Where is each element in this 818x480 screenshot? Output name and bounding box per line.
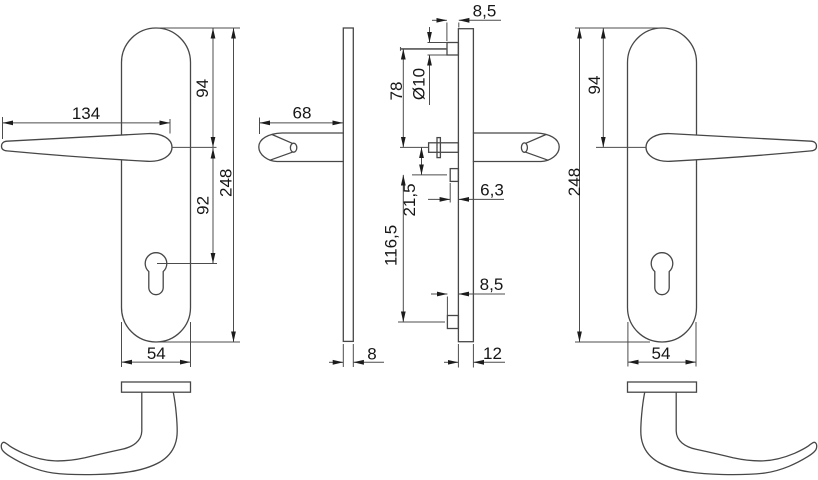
lever tip ellipse right — [521, 143, 527, 152]
dim 134 ext right — [169, 119, 171, 134]
lever tip cone line top — [272, 135, 292, 144]
extension line keyhole centre — [157, 263, 217, 265]
dim 248 line right — [579, 28, 581, 342]
screw shaft — [401, 48, 448, 50]
spindle collar — [437, 138, 440, 158]
lever grip top view right — [641, 392, 817, 474]
lever tip cone line bottom — [270, 152, 292, 160]
dim 54 ext lines left — [121, 322, 123, 367]
dim 8.5 bottom arrows — [431, 293, 447, 295]
lever handle right front — [646, 134, 817, 162]
lever handle side profile — [259, 133, 344, 162]
dim 54 line right — [628, 361, 696, 363]
extension line plate top — [156, 27, 240, 29]
dim 8.5 bottom ext — [446, 297, 448, 316]
spindle centre extension — [400, 146, 429, 148]
svg-text:6,3: 6,3 — [480, 180, 504, 199]
bottom screw boss — [447, 316, 458, 329]
svg-text:248: 248 — [217, 169, 236, 197]
dim 12 ext lines — [457, 344, 459, 368]
extension line handle centre — [172, 146, 217, 148]
backplate edge bar left — [122, 382, 191, 392]
cylinder boss ext line — [449, 183, 451, 203]
backplate section — [458, 29, 473, 342]
svg-text:8: 8 — [367, 344, 376, 363]
backplate right — [628, 28, 697, 342]
svg-text:8,5: 8,5 — [480, 275, 504, 294]
svg-text:94: 94 — [585, 76, 604, 95]
lever grip top view left — [1, 392, 177, 474]
svg-text:94: 94 — [193, 79, 212, 98]
lever handle left front — [2, 134, 173, 162]
cylinder boss — [450, 169, 458, 182]
dim 248 line left — [233, 28, 235, 342]
svg-text:8,5: 8,5 — [473, 1, 497, 20]
backplate side view — [343, 28, 353, 341]
dim 78 line — [402, 49, 404, 147]
dim 94 line left — [212, 28, 214, 147]
dim 54 ext lines right — [627, 322, 629, 367]
dim 68 line — [260, 122, 344, 124]
svg-text:134: 134 — [72, 104, 100, 123]
svg-text:12: 12 — [483, 344, 502, 363]
lever tip ellipse — [290, 143, 296, 152]
dim 8 ext lines — [342, 344, 344, 367]
dim 94 line right — [602, 28, 604, 147]
spindle — [429, 143, 459, 153]
svg-text:54: 54 — [147, 344, 166, 363]
svg-text:54: 54 — [652, 344, 671, 363]
svg-text:92: 92 — [194, 196, 213, 215]
mid terminal line 21.5/116.5 — [412, 174, 447, 176]
dim 68 ext — [259, 118, 261, 135]
svg-text:Ø10: Ø10 — [410, 68, 429, 100]
dim 8 arrows — [329, 361, 343, 363]
dim dia10 arrow down — [429, 27, 431, 43]
lever tip cone line top right — [526, 135, 546, 144]
dim 116.5 line — [402, 175, 404, 322]
dim 54 line left — [122, 361, 191, 363]
svg-text:248: 248 — [565, 168, 584, 196]
svg-text:78: 78 — [387, 82, 406, 101]
svg-text:116,5: 116,5 — [381, 225, 400, 266]
keyhole euro profile right — [651, 253, 673, 295]
dim 92 line — [212, 148, 214, 264]
dim 6.3 arrows — [428, 198, 450, 200]
dim 134 line — [3, 122, 171, 124]
dim 134 ext left — [2, 117, 4, 139]
dim 21.5 line — [421, 147, 423, 175]
keyhole euro profile left — [145, 253, 167, 295]
extension line handle centre right — [596, 146, 646, 148]
boss top edge extension — [428, 42, 448, 44]
lever handle section profile — [473, 133, 559, 162]
extension line plate bottom — [156, 341, 240, 343]
dim 116.5 bottom terminal — [398, 321, 445, 323]
extension line plate top right — [575, 27, 660, 29]
extension line plate bottom right — [575, 341, 650, 343]
dim 8.5 top arrows — [432, 19, 447, 21]
lever tip cone line bottom right — [526, 152, 548, 160]
svg-text:68: 68 — [293, 104, 312, 123]
backplate edge bar right — [628, 382, 697, 392]
dim dia10 arrow up — [429, 55, 431, 105]
screw tip cap — [400, 47, 402, 51]
boss bottom edge extension — [428, 54, 448, 56]
backplate left — [122, 28, 191, 342]
dim 12 arrows — [444, 361, 458, 363]
dim 8.5 top ext lines — [446, 23, 448, 42]
top screw boss — [447, 43, 458, 56]
